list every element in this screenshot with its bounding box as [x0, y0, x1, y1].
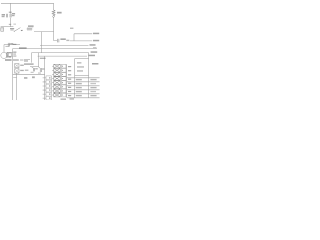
label bottom edge a: [61, 99, 67, 100]
wire vertical x44.6: [44, 56, 46, 100]
wire net stub y59.5: [24, 59, 30, 61]
wire vertical x41.6: [41, 32, 43, 53]
capacitor C1 plates: [6, 14, 7, 18]
net label bus2: [93, 40, 99, 42]
label C1: [2, 14, 5, 15]
table cell labels left column: [76, 79, 82, 96]
wire top power rail: [1, 2, 54, 4]
label R1 value: [57, 12, 62, 14]
label C2 value: [12, 13, 15, 14]
net label bus3: [90, 44, 96, 46]
label D1: [20, 65, 24, 66]
label under y56: [40, 58, 46, 59]
wire y74.7: [13, 74, 45, 76]
resistor R1 zigzag on vertical B: [52, 10, 55, 16]
IC U2 box labels: [77, 62, 81, 63]
wire vertical x88.6: [88, 53, 90, 98]
label C3 value: [60, 38, 65, 40]
wire y66.6: [30, 66, 39, 68]
wire bus y40.9: [70, 40, 92, 42]
wire bus y56.1: [38, 55, 87, 57]
label Y1 extra: [8, 57, 11, 58]
label XTAL row: [5, 59, 12, 60]
wire crystal stubs: [7, 52, 13, 57]
label above y26.6: [13, 24, 16, 25]
net label under y59.5: [24, 60, 28, 61]
wire y44.6 left: [4, 44, 20, 46]
wire bus y45.4: [40, 44, 89, 46]
wire vertical x74.6: [74, 59, 76, 98]
wire horizontal y26.6: [1, 26, 14, 28]
net label bus5: [91, 51, 98, 53]
plus mark C4: [32, 66, 33, 69]
wire vertical x38.6: [38, 53, 40, 67]
connector P1 pin boxes: [46, 76, 51, 100]
label P1 row: [24, 63, 34, 64]
label J1: [10, 28, 14, 29]
wire box bottom edge y75.6: [75, 75, 89, 77]
pin labels column: [68, 66, 71, 96]
wire table row lines: [67, 78, 100, 98]
capacitor C5: [40, 68, 41, 72]
wire vertical x31.6: [31, 53, 33, 63]
wire vertical x4: [3, 45, 5, 53]
label C2 top: [9, 12, 12, 13]
switch S1 contact: [21, 30, 22, 31]
capacitor C2 plates: [10, 14, 11, 18]
net label bus4: [93, 47, 97, 48]
connector J1 box: [1, 28, 4, 32]
net label bus1: [93, 33, 99, 35]
capacitor C4: [33, 68, 34, 71]
label bottom left center: [24, 77, 27, 79]
wire vertical x66.6: [66, 64, 68, 98]
resistor network boxes: [62, 64, 66, 97]
capacitor C3 electrolytic: [58, 39, 59, 43]
diode D1 box: [15, 64, 19, 68]
junction label x10.6: [9, 24, 11, 25]
diode array X boxes: [54, 64, 60, 97]
label Y1 marks: [13, 52, 16, 53]
wire connector stubs: [43, 78, 46, 98]
switch S1 lever: [14, 28, 20, 32]
label above bus y33.8: [70, 28, 73, 29]
diode array left ticks: [52, 66, 54, 95]
crystal Y1 plates: [7, 52, 8, 57]
switch S1 pivot: [14, 31, 15, 32]
label R2: [10, 43, 13, 44]
crystal Y1 circle: [1, 52, 7, 58]
crystal Y1 box: [8, 53, 11, 56]
table cell labels right column: [90, 79, 96, 96]
resistor network dots: [62, 66, 63, 96]
label near connector: [32, 76, 35, 78]
label OSC on y48.6: [19, 47, 27, 48]
diode D2 box: [15, 69, 19, 73]
wire bus y33.8: [74, 34, 92, 41]
wire vertical from rail at x10.6: [10, 3, 12, 26]
label right of D2: [25, 70, 29, 71]
wire left long vertical x12.6: [12, 49, 14, 100]
net label bus6: [88, 55, 95, 57]
connector P1 pin dots: [49, 77, 50, 99]
wire left vertical x16.6: [13, 73, 16, 100]
plus mark C5: [39, 66, 40, 69]
wire y31.6: [34, 31, 54, 33]
wire box top edge y58.6: [75, 58, 89, 60]
label right of x88.6: [92, 63, 98, 65]
net label underlines: [27, 26, 33, 28]
resistor R1 terminal circle: [53, 16, 55, 18]
resistor R2 on y44.6: [8, 43, 9, 46]
wire bus y48.6: [13, 48, 97, 50]
label D2: [20, 70, 24, 71]
net label +5V pair: [28, 25, 34, 27]
wire bus y52.6: [32, 52, 89, 54]
wire vertical B x53.6: [54, 3, 57, 40]
label bottom edge b: [70, 98, 75, 99]
